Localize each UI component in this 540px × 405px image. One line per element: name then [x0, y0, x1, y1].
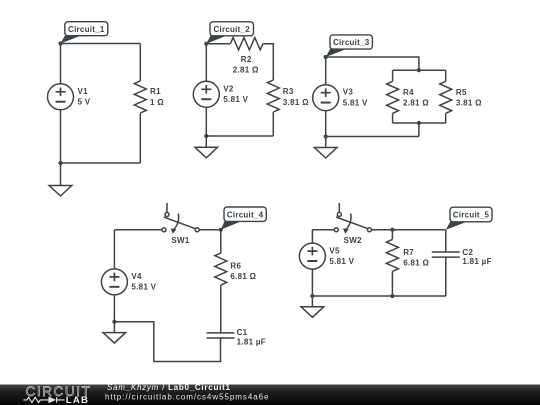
svg-text:SW1: SW1	[171, 236, 189, 245]
svg-text:5 V: 5 V	[78, 98, 91, 107]
node top-left circuit 2	[204, 42, 208, 46]
wire SW1 to node	[199, 229, 221, 231]
svg-text:1.81 µF: 1.81 µF	[462, 257, 491, 266]
node Circuit_4 flag	[221, 221, 241, 230]
svg-text:V4: V4	[131, 272, 142, 281]
ground circuit 3	[314, 137, 337, 159]
wire R7 node to C2 corner	[392, 229, 445, 231]
wire R4 lower stub	[392, 113, 394, 123]
node parallel top circuit 3	[417, 68, 421, 72]
wire bottom rail circuit 3	[326, 136, 419, 138]
node bottom-left circuit 4	[112, 320, 116, 324]
svg-text:2.81 Ω: 2.81 Ω	[233, 65, 259, 74]
svg-text:3.81 Ω: 3.81 Ω	[283, 98, 309, 107]
wire right branch upper (to R1)	[139, 44, 141, 82]
resistor R3	[267, 80, 279, 112]
wire R7 lower stub	[391, 271, 393, 296]
wire R7 upper stub	[391, 230, 393, 240]
svg-text:Circuit_1: Circuit_1	[68, 25, 105, 34]
svg-text:SW2: SW2	[344, 236, 362, 245]
wire right branch lower (R1 to bottom)	[139, 113, 141, 163]
node bottom-left circuit 1	[58, 161, 62, 165]
svg-text:Sam_Khzym / Lab0_Circuit1: Sam_Khzym / Lab0_Circuit1	[107, 383, 231, 392]
wire top rail circuit 3	[326, 57, 419, 70]
ground circuit 5	[301, 296, 324, 317]
resistor R4	[387, 81, 399, 113]
node Circuit_3 box	[330, 35, 372, 49]
svg-text:5.81 V: 5.81 V	[223, 95, 248, 104]
capacitor C2	[432, 252, 460, 257]
node Circuit_4 box	[224, 207, 266, 221]
resistor R5	[440, 81, 452, 113]
svg-text:V5: V5	[329, 247, 340, 256]
wire R5 lower stub	[445, 113, 447, 123]
voltage source V4	[101, 269, 127, 295]
node bottom-left circuit 2	[204, 134, 208, 138]
svg-text:http://circuitlab.com/cs4w55pm: http://circuitlab.com/cs4w55pms4a6e	[105, 393, 269, 402]
svg-text:C1: C1	[237, 328, 248, 337]
svg-text:6.81 Ω: 6.81 Ω	[403, 259, 429, 268]
wire left branch lower circuit 5	[311, 269, 313, 296]
wire bottom rail circuit 5	[312, 295, 445, 297]
svg-text:R6: R6	[230, 262, 241, 271]
wire top rail left (corner to SW2)	[312, 229, 334, 231]
svg-text:R4: R4	[403, 88, 414, 97]
wire left branch upper circuit 4	[113, 230, 115, 269]
switch SW2	[334, 203, 371, 234]
node Circuit_2 flag	[206, 35, 227, 44]
wire C2 upper stub	[445, 230, 447, 252]
wire left branch lower	[205, 107, 207, 136]
wire bottom rail circuit 1	[61, 162, 141, 164]
wire R6 upper stub	[220, 230, 222, 253]
wire R3 bottom	[272, 112, 274, 136]
node bottom-left circuit 5	[310, 294, 314, 298]
node top-left circuit 3	[324, 55, 328, 59]
svg-text:Circuit_4: Circuit_4	[227, 210, 264, 219]
node Circuit_1 box	[65, 22, 108, 36]
CircuitLab logo resistor-diode glyph	[23, 397, 64, 403]
svg-text:V1: V1	[78, 87, 89, 96]
node R7 top circuit 5	[390, 228, 394, 232]
ground circuit 4	[103, 322, 126, 343]
wire left branch upper (node to V1)	[60, 44, 62, 84]
wire left branch lower	[325, 111, 327, 137]
svg-text:LAB: LAB	[66, 395, 89, 405]
svg-text:Circuit_2: Circuit_2	[213, 25, 250, 34]
wire R4 upper stub	[392, 70, 394, 81]
svg-text:5.81 V: 5.81 V	[329, 257, 354, 266]
wire left branch upper (node to V3)	[325, 57, 327, 85]
svg-text:Circuit_5: Circuit_5	[453, 211, 490, 220]
voltage source V5	[299, 243, 325, 269]
wire down from parallel bottom	[418, 123, 420, 137]
wire top-left stub to R2	[206, 43, 230, 45]
svg-text:C2: C2	[462, 248, 473, 257]
wire top rail circuit 1	[61, 43, 141, 45]
wire left branch lower (V1 to bottom)	[60, 110, 62, 163]
svg-text:2.81 Ω: 2.81 Ω	[403, 99, 429, 108]
node R6 top circuit 4	[219, 228, 223, 232]
capacitor C1	[207, 333, 235, 338]
wire R5 upper stub	[445, 70, 447, 81]
voltage source V2	[193, 81, 219, 107]
ground circuit 1	[49, 163, 72, 196]
svg-text:V2: V2	[223, 84, 234, 93]
node Circuit_3 flag	[326, 49, 347, 58]
ground circuit 2	[195, 136, 218, 158]
node Circuit_5 flag	[446, 221, 467, 229]
svg-text:R5: R5	[456, 88, 467, 97]
wire top rail left (corner to SW1)	[114, 229, 162, 231]
wire SW2 to R7 node	[372, 229, 393, 231]
wire R6 to C1	[220, 285, 222, 333]
resistor R1	[134, 81, 146, 113]
wire left branch upper circuit 5	[311, 230, 313, 243]
node Circuit_2 box	[210, 22, 254, 36]
svg-text:R7: R7	[403, 248, 414, 257]
wire R2 to top-right corner and down to R3	[263, 44, 273, 80]
node Circuit_1 flag	[61, 35, 83, 44]
wire bottom rail circuit 2	[206, 135, 273, 137]
node R7 bottom circuit 5	[390, 294, 394, 298]
voltage source V3	[313, 85, 339, 111]
svg-text:3.81 Ω: 3.81 Ω	[456, 99, 482, 108]
svg-text:V3: V3	[343, 88, 354, 97]
svg-text:5.81 V: 5.81 V	[131, 283, 156, 292]
svg-text:1 Ω: 1 Ω	[150, 98, 164, 107]
svg-text:1.81 µF: 1.81 µF	[237, 337, 266, 346]
node bottom-left circuit 3	[324, 134, 328, 138]
voltage source V1	[48, 84, 74, 110]
node Circuit_5 box	[450, 207, 492, 222]
svg-text:R3: R3	[283, 87, 294, 96]
svg-text:R1: R1	[150, 87, 161, 96]
resistor R7	[386, 239, 398, 271]
wire C1 bottom path	[114, 322, 220, 362]
switch SW1	[162, 203, 199, 234]
svg-text:5.81 V: 5.81 V	[343, 98, 368, 107]
svg-text:Circuit_3: Circuit_3	[333, 38, 370, 47]
wire parallel top rail	[393, 69, 446, 71]
wire parallel bottom rail	[393, 122, 446, 124]
wire left branch upper (node to V2)	[205, 44, 207, 82]
resistor R2	[230, 38, 263, 50]
wire left branch lower circuit 4	[113, 295, 115, 322]
wire C2 lower stub	[445, 257, 447, 296]
svg-text:R2: R2	[241, 55, 252, 64]
node parallel bottom circuit 3	[417, 121, 421, 125]
resistor R6	[215, 253, 227, 285]
node top-left circuit 1	[58, 41, 62, 45]
svg-text:6.81 Ω: 6.81 Ω	[230, 272, 256, 281]
